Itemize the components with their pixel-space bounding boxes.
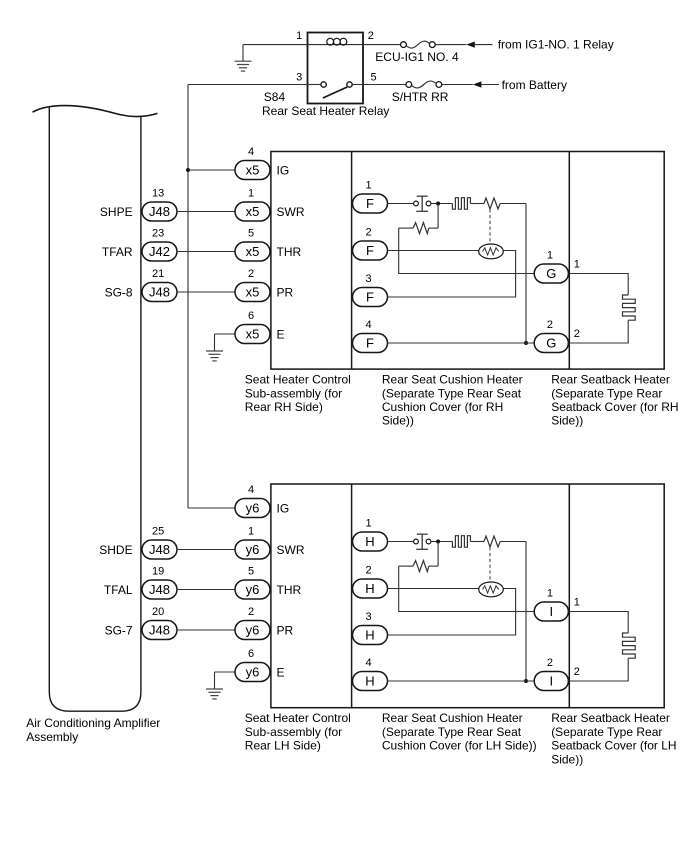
wire seatback heater to G2 [568,320,628,343]
svg-text:3: 3 [366,611,372,623]
svg-text:1: 1 [248,525,254,537]
svg-text:21: 21 [152,268,164,280]
svg-text:1: 1 [574,596,580,608]
svg-text:1: 1 [547,249,553,261]
svg-text:S84: S84 [264,90,286,104]
heater switch (RH) [414,196,431,211]
junction switch output (RH) [436,202,440,206]
svg-text:H: H [365,581,374,596]
connector y6 pin THR [235,580,270,599]
svg-text:2: 2 [248,268,254,280]
svg-text:Seatback Cover (for RH: Seatback Cover (for RH [551,400,678,414]
wire F2 to thermistor loop (RH) [388,251,516,298]
wire IG bus to y6 IG [188,507,235,509]
svg-text:2: 2 [574,666,580,678]
connector x5 pin E [235,325,270,344]
svg-text:PR: PR [277,623,294,637]
wire G1 to seatback heater [568,274,628,296]
section divider seatback heater (LH) [568,484,570,708]
svg-text:J48: J48 [149,285,170,300]
svg-text:PR: PR [277,285,294,299]
wire relay pin 3 horizontal [188,84,308,86]
svg-text:y6: y6 [246,665,260,680]
connector H pin 3 [353,626,388,645]
heater element symbol (LH cushion) [452,536,470,548]
svg-text:20: 20 [152,606,164,618]
svg-text:Rear Seatback Heater: Rear Seatback Heater [551,373,670,387]
svg-text:Rear Seat Cushion Heater: Rear Seat Cushion Heater [382,373,523,387]
wire R2 drop to I1 (LH) [399,566,535,611]
connector H pin 1 [353,532,388,551]
svg-text:4: 4 [366,657,372,669]
ECU box Seat Heater Control (RH) [271,152,664,370]
svg-text:2: 2 [248,606,254,618]
connector J48 (SG-7) [142,621,177,640]
svg-text:IG: IG [277,501,290,515]
connector G pin 1 [534,264,568,283]
wire R2 right stub (RH) [429,227,438,229]
svg-text:2: 2 [368,30,374,42]
svg-text:2: 2 [366,564,372,576]
svg-text:y6: y6 [246,623,260,638]
wire SHDE to y6 [177,549,235,551]
connector x5 pin PR [235,283,270,302]
svg-text:F: F [366,243,374,258]
connector F pin 1 [353,194,388,213]
connector y6 pin E [235,663,270,682]
svg-text:H: H [365,674,374,689]
resistor R2 (RH cushion) [413,223,429,234]
svg-text:TFAL: TFAL [104,583,133,597]
svg-text:J48: J48 [149,542,170,557]
connector I pin 2 [534,672,568,691]
connector x5 pin IG [235,161,270,180]
connector H pin 2 [353,579,388,598]
wire relay pin 5 to fuse S/HTR RR [363,84,406,86]
junction at G2 wire (RH) [524,341,528,345]
resistor R1 (LH cushion) [484,536,500,547]
svg-text:Rear Seat Heater Relay: Rear Seat Heater Relay [262,104,389,118]
relay wire pin5 inside box [352,84,363,86]
connector I pin 1 [534,602,568,621]
wire F1 to switch [388,203,414,205]
svg-text:J42: J42 [149,244,170,259]
relay contact pin 5 terminal [347,82,352,87]
thermistor sensor (RH) [479,244,504,259]
svg-text:1: 1 [248,187,254,199]
wire resistor to right drop (LH) [500,541,526,543]
svg-text:x5: x5 [246,204,260,219]
wire R2 drop to G1 (RH) [399,228,535,273]
svg-text:1: 1 [574,258,580,270]
heater switch (LH) [414,534,431,549]
fuse ECU-IG1 NO. 4 [401,41,436,48]
svg-text:2: 2 [547,657,553,669]
svg-text:Seat Heater Control: Seat Heater Control [245,373,351,387]
svg-text:G: G [546,266,556,281]
wire H1 to switch [388,541,414,543]
connector G pin 2 [534,334,568,353]
svg-text:F: F [366,290,374,305]
relay S84 box [308,33,364,104]
connector J48 (TFAL) [142,580,177,599]
wire I1 to seatback heater [568,612,628,634]
svg-text:Rear RH Side): Rear RH Side) [245,400,323,414]
wire H4 to I2 [388,680,535,682]
ground (x5 E) [206,334,223,361]
svg-text:Side)): Side)) [551,752,583,766]
wire SHPE to x5 [177,211,235,213]
svg-text:SHPE: SHPE [100,205,133,219]
svg-text:from Battery: from Battery [502,78,567,92]
svg-text:Sub-assembly (for: Sub-assembly (for [245,386,342,400]
svg-text:Sub-assembly (for: Sub-assembly (for [245,725,342,739]
connector J42 (TFAR) [142,242,177,261]
ground (y6 E) [206,672,223,699]
Rear Seat Cushion Heater caption (RH) [382,373,523,428]
svg-text:Side)): Side)) [382,414,414,428]
wire H2 to thermistor loop (LH) [388,589,516,636]
wire R2 right stub (LH) [429,565,438,567]
svg-text:I: I [549,674,553,689]
wire ground to relay pin 1 [243,44,308,46]
svg-text:SG-7: SG-7 [105,623,133,637]
svg-text:4: 4 [248,484,254,496]
svg-text:y6: y6 [246,542,260,557]
wire F4 to G2 [388,342,535,344]
svg-text:25: 25 [152,525,164,537]
svg-text:1: 1 [366,517,372,529]
wire R2 left stub (LH) [399,565,413,567]
connector H pin 4 [353,672,388,691]
svg-text:4: 4 [248,146,254,158]
svg-text:(Separate Type Rear Seat: (Separate Type Rear Seat [382,725,522,739]
connector F pin 4 [353,334,388,353]
connector y6 pin SWR [235,540,270,559]
svg-text:Seat Heater Control: Seat Heater Control [245,711,351,725]
svg-text:G: G [546,336,556,351]
svg-text:x5: x5 [246,285,260,300]
wire fuse ECU-IG1 to arrow [435,44,466,46]
svg-text:2: 2 [366,226,372,238]
Seat Heater Control caption (LH) [245,711,351,752]
svg-text:TFAR: TFAR [102,245,133,259]
wire switch to junction (RH) [431,203,453,205]
svg-text:2: 2 [547,319,553,331]
svg-text:6: 6 [248,310,254,322]
svg-text:(Separate Type Rear Seat: (Separate Type Rear Seat [382,386,522,400]
wire element to resistor (RH) [470,203,484,205]
svg-text:Air Conditioning Amplifier: Air Conditioning Amplifier [26,716,160,730]
wire junction down to resistor R2 (LH) [437,542,439,567]
wire element to resistor (LH) [470,541,484,543]
dashed link resistor to thermistor (RH) [489,209,491,244]
junction at I2 wire (LH) [524,679,528,683]
label Air Conditioning Amplifier Assembly [26,716,160,744]
svg-text:Side)): Side)) [551,414,583,428]
svg-text:(Separate Type Rear: (Separate Type Rear [551,725,662,739]
svg-text:E: E [277,665,285,679]
svg-text:Cushion Cover (for RH: Cushion Cover (for RH [382,400,503,414]
wire switch to junction (LH) [431,541,453,543]
Rear Seatback Heater caption (RH) [551,373,678,428]
relay wire pin3 inside box [308,84,321,86]
svg-text:H: H [365,628,374,643]
relay coil [327,38,347,45]
svg-text:(Separate Type Rear: (Separate Type Rear [551,386,662,400]
svg-text:23: 23 [152,227,164,239]
ground (relay coil ground) [235,45,252,72]
wire SG-8 to x5 [177,291,235,293]
svg-text:I: I [549,604,553,619]
svg-text:E: E [277,327,285,341]
svg-text:3: 3 [296,71,302,83]
Rear Seat Cushion Heater caption (LH) [382,711,537,752]
svg-text:J48: J48 [149,204,170,219]
svg-text:19: 19 [152,565,164,577]
svg-text:13: 13 [152,187,164,199]
svg-text:1: 1 [547,587,553,599]
section divider cushion heater (LH) [351,484,353,708]
Seat Heater Control caption (RH) [245,373,351,414]
svg-text:2: 2 [574,328,580,340]
svg-text:3: 3 [366,273,372,285]
connector y6 pin IG [235,499,270,518]
Rear Seatback Heater caption (LH) [551,711,676,766]
svg-text:F: F [366,196,374,211]
wire relay pin 2 to fuse ECU-IG1 [363,44,401,46]
relay coil wire pins 1-2 [308,44,364,46]
wire resistor to right drop (RH) [500,203,526,205]
svg-text:SHDE: SHDE [99,543,132,557]
svg-text:F: F [366,336,374,351]
svg-text:x5: x5 [246,244,260,259]
svg-text:SG-8: SG-8 [105,285,133,299]
svg-text:Rear LH Side): Rear LH Side) [245,739,321,753]
svg-text:4: 4 [366,319,372,331]
wire right drop vertical (LH) [525,542,527,682]
connector J48 (SHDE) [142,540,177,559]
svg-text:THR: THR [277,583,302,597]
ECU box Seat Heater Control (LH) [271,484,664,708]
svg-text:H: H [365,534,374,549]
svg-text:IG: IG [277,163,290,177]
section divider cushion heater (RH) [351,152,353,370]
svg-text:5: 5 [371,71,377,83]
wire ground to x5 E [215,333,236,335]
wire SG-7 to y6 [177,629,235,631]
wire TFAL to y6 [177,589,235,591]
connector J48 (SHPE) [142,202,177,221]
svg-text:6: 6 [248,648,254,660]
svg-text:SWR: SWR [277,205,305,219]
relay contact blade [323,87,347,98]
fuse S/HTR RR [406,81,442,88]
wire junction down to resistor R2 (RH) [437,204,439,229]
svg-text:y6: y6 [246,582,260,597]
svg-text:Rear Seat Cushion Heater: Rear Seat Cushion Heater [382,711,523,725]
wire right drop vertical (RH) [525,204,527,344]
svg-text:1: 1 [366,179,372,191]
svg-text:from IG1-NO. 1 Relay: from IG1-NO. 1 Relay [498,38,614,52]
svg-text:5: 5 [248,565,254,577]
arrow from Battery [473,81,499,87]
resistor R1 (RH cushion) [484,198,500,209]
wire IG bus vertical [187,85,189,509]
connector x5 pin SWR [235,202,270,221]
wire seatback heater to I2 [568,658,628,681]
wire fuse S/HTR RR to arrow [442,84,473,86]
svg-text:Rear Seatback Heater: Rear Seatback Heater [551,711,670,725]
wire TFAR to x5 [177,251,235,253]
resistor R2 (LH cushion) [413,561,429,572]
svg-text:Cushion Cover (for LH Side)): Cushion Cover (for LH Side)) [382,739,537,753]
heater element symbol (RH cushion) [452,198,470,210]
wire IG bus to x5 IG [188,169,235,171]
svg-text:ECU-IG1 NO. 4: ECU-IG1 NO. 4 [375,50,459,64]
connector Air Conditioning Amplifier Assembly [33,106,158,712]
svg-text:x5: x5 [246,163,260,178]
svg-text:Seatback Cover (for LH: Seatback Cover (for LH [551,739,676,753]
heater element (LH seatback) [623,633,636,658]
dashed link resistor to thermistor (LH) [489,547,491,582]
connector F pin 3 [353,288,388,307]
svg-text:S/HTR RR: S/HTR RR [392,90,449,104]
svg-text:THR: THR [277,245,302,259]
svg-text:x5: x5 [246,327,260,342]
svg-text:Assembly: Assembly [26,730,78,744]
svg-text:1: 1 [296,30,302,42]
svg-text:SWR: SWR [277,543,305,557]
arrow from IG1-NO. 1 Relay [466,42,492,48]
relay contact pin 3 terminal [321,82,326,87]
connector y6 pin PR [235,621,270,640]
svg-text:J48: J48 [149,623,170,638]
svg-text:5: 5 [248,227,254,239]
svg-text:J48: J48 [149,582,170,597]
wire ground to y6 E [215,671,236,673]
thermistor sensor (LH) [479,582,504,597]
connector J48 (SG-8) [142,283,177,302]
section divider seatback heater (RH) [568,152,570,370]
heater element (RH seatback) [623,295,636,320]
connector F pin 2 [353,241,388,260]
junction IG bus to x5 IG [186,168,190,172]
junction switch output (LH) [436,540,440,544]
svg-text:y6: y6 [246,501,260,516]
wire R2 left stub (RH) [399,227,413,229]
connector x5 pin THR [235,242,270,261]
